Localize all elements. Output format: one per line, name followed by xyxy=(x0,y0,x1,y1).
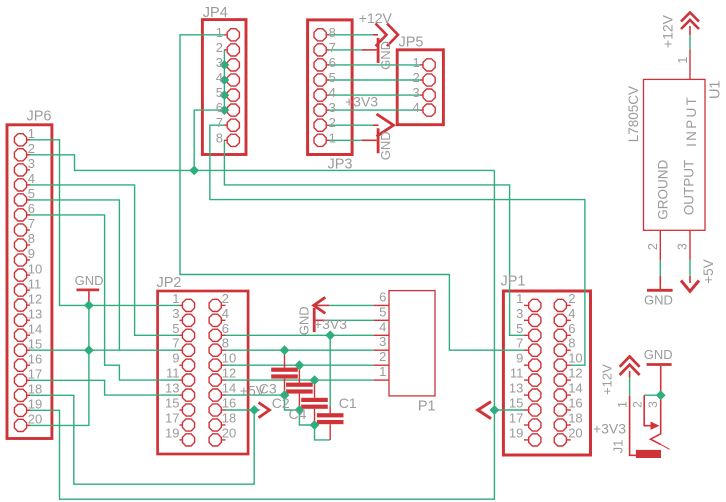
svg-text:JP1: JP1 xyxy=(501,274,526,290)
connector JP5 box xyxy=(397,50,443,125)
wire JP3 pin7 to GND symbol xyxy=(328,49,362,51)
junction +5V at JP2 pin16 xyxy=(249,405,259,415)
wire J1 pin1 to +12V symbol xyxy=(629,376,631,396)
svg-text:7: 7 xyxy=(216,115,223,130)
svg-text:16: 16 xyxy=(28,351,42,366)
connector JP1 box xyxy=(503,291,590,455)
GND symbol at JP3 pin1 xyxy=(362,128,378,153)
connector JP6 box xyxy=(7,125,52,439)
junction J1 pins 2-3 GND xyxy=(656,390,666,400)
svg-text:5: 5 xyxy=(516,321,523,336)
svg-text:20: 20 xyxy=(568,425,582,440)
wire JP3 pin2 to +3V3 symbol xyxy=(328,124,374,126)
svg-text:1: 1 xyxy=(412,55,419,70)
svg-text:4: 4 xyxy=(329,85,336,100)
JP3 pads and pin stubs xyxy=(314,29,329,147)
wire GND: vertical tie by JP6 xyxy=(27,305,89,425)
svg-text:C1: C1 xyxy=(339,395,357,411)
svg-text:19: 19 xyxy=(509,425,523,440)
jumper J1 body bar xyxy=(636,450,661,458)
svg-text:1: 1 xyxy=(172,291,179,306)
svg-text:1: 1 xyxy=(516,291,523,306)
wire JP6 pin4 to JP2 pin5 xyxy=(27,185,179,335)
GND symbol above JP2 pin1 wire xyxy=(77,290,100,306)
connector JP2 box xyxy=(158,291,249,454)
svg-text:14: 14 xyxy=(28,321,42,336)
svg-text:12: 12 xyxy=(222,366,236,381)
svg-text:5: 5 xyxy=(28,186,35,201)
svg-text:8: 8 xyxy=(329,25,336,40)
junction JP4 pin6 xyxy=(220,105,230,115)
svg-text:7: 7 xyxy=(172,336,179,351)
wire JP3 pin4 to JP5 pin3 xyxy=(328,94,422,96)
svg-text:JP3: JP3 xyxy=(328,157,353,173)
wire JP6 pin18 to JP2 pin16 bus xyxy=(27,395,254,484)
svg-text:20: 20 xyxy=(222,425,236,440)
svg-text:2: 2 xyxy=(28,141,35,156)
junction +5V at JP1 pin15 xyxy=(490,405,500,415)
junction C3 bottom xyxy=(280,390,290,400)
svg-text:8: 8 xyxy=(28,231,35,246)
svg-text:3: 3 xyxy=(516,306,523,321)
svg-text:+12V: +12V xyxy=(600,364,615,395)
svg-text:+12V: +12V xyxy=(359,10,393,26)
JP1 left pads and pin stubs xyxy=(524,299,541,446)
svg-text:6: 6 xyxy=(216,100,223,115)
svg-text:9: 9 xyxy=(28,246,35,261)
junction GND at JP2 pin7 row xyxy=(84,345,94,355)
svg-text:16: 16 xyxy=(568,396,582,411)
wire JP2 pin6 to P1 pin4 xyxy=(225,334,374,336)
wire P1 pin6 to +3V3 symbol xyxy=(329,304,374,306)
capacitor C2 xyxy=(301,380,328,425)
junction C4 bottom xyxy=(295,405,305,415)
wire JP4 pin8 to JP1 pin5 xyxy=(224,140,524,335)
+5V supply symbol at JP2 pin16 xyxy=(254,403,269,418)
jumper J1 pin1 line xyxy=(630,396,636,456)
JP5 pads and pin stubs xyxy=(420,59,435,116)
svg-text:4: 4 xyxy=(412,100,419,115)
wire JP3 pin8 to +12V symbol xyxy=(328,34,374,36)
wire JP4 pin1 to JP1 pin7 xyxy=(180,35,524,350)
svg-text:8: 8 xyxy=(222,336,229,351)
svg-text:2: 2 xyxy=(646,243,660,250)
svg-text:18: 18 xyxy=(568,411,582,426)
wire capacitor ground chain C3-C4-C2-C1 xyxy=(285,395,331,440)
wire JP4 pin7 to JP1 pin10 xyxy=(210,125,585,365)
svg-text:17: 17 xyxy=(165,411,179,426)
svg-text:GND: GND xyxy=(75,273,104,288)
U1 pin 3 xyxy=(689,230,691,260)
svg-text:15: 15 xyxy=(165,396,179,411)
junction C3 top xyxy=(280,345,290,355)
svg-text:+12V: +12V xyxy=(660,14,676,48)
+12V supply symbol at JP3 pin8 xyxy=(373,24,398,47)
svg-text:GND: GND xyxy=(644,347,673,362)
GND symbol above J1 xyxy=(647,365,672,396)
svg-text:10: 10 xyxy=(568,351,582,366)
svg-text:13: 13 xyxy=(509,381,523,396)
svg-text:11: 11 xyxy=(166,366,180,381)
svg-text:GND: GND xyxy=(297,306,312,335)
GND symbol at JP3 pin7 xyxy=(362,38,378,63)
svg-text:3: 3 xyxy=(379,334,386,349)
jumper J1 pin3 line with contact zigzag xyxy=(651,395,670,449)
junction JP4 pin3 xyxy=(220,60,230,70)
svg-text:JP2: JP2 xyxy=(157,275,182,291)
svg-text:3: 3 xyxy=(675,243,689,250)
svg-text:P1: P1 xyxy=(418,399,436,415)
svg-text:8: 8 xyxy=(568,336,575,351)
svg-text:17: 17 xyxy=(28,367,42,382)
svg-text:9: 9 xyxy=(172,351,179,366)
svg-text:U1: U1 xyxy=(707,81,723,100)
svg-text:2: 2 xyxy=(568,291,575,306)
svg-text:14: 14 xyxy=(568,381,582,396)
wire net +5V: JP6 pin2 staircase to long horizontal xyxy=(27,155,494,171)
svg-text:J1: J1 xyxy=(611,440,626,454)
svg-text:2: 2 xyxy=(222,291,229,306)
P1 pin stubs xyxy=(374,305,389,380)
svg-text:13: 13 xyxy=(165,381,179,396)
wire P1 pin5 to GND symbol xyxy=(329,319,374,321)
svg-text:+5V: +5V xyxy=(701,259,716,283)
svg-text:+3V3: +3V3 xyxy=(593,420,626,436)
svg-text:OUTPUT: OUTPUT xyxy=(682,160,697,216)
svg-text:3: 3 xyxy=(28,156,35,171)
svg-text:6: 6 xyxy=(28,201,35,216)
svg-text:2: 2 xyxy=(216,40,223,55)
wire JP6 pin1 down to GND row xyxy=(27,140,179,306)
connector JP3 box xyxy=(308,20,353,155)
svg-text:GND: GND xyxy=(378,131,393,160)
wire net +5V: junction up to JP4 pin6 and JP4 pins2-6 tie xyxy=(194,50,224,170)
svg-text:GND: GND xyxy=(378,41,393,70)
svg-text:5: 5 xyxy=(379,304,386,319)
wire net +5V: JP6 pin19 down to bottom bus and right riser xyxy=(27,170,494,499)
wire U1 pin2 net xyxy=(659,261,661,276)
GND symbol at P1 pin5 xyxy=(314,308,328,332)
jumper J1 pin2 line with wiper arrow xyxy=(644,395,659,430)
svg-text:18: 18 xyxy=(28,382,42,397)
wire JP2 pin10 to P1 pin2 xyxy=(225,364,374,366)
JP5 pin numbers xyxy=(412,55,419,115)
wire U1 pin3 net xyxy=(689,260,691,276)
svg-text:3: 3 xyxy=(412,85,419,100)
svg-text:15: 15 xyxy=(28,336,42,351)
connector JP4 box xyxy=(202,20,246,155)
svg-text:7: 7 xyxy=(329,40,336,55)
svg-text:10: 10 xyxy=(222,351,236,366)
U1 pin 2 xyxy=(659,230,661,260)
svg-text:1: 1 xyxy=(28,126,35,141)
+3V3 supply symbol at P1 pin6 xyxy=(314,297,329,313)
svg-text:C4: C4 xyxy=(289,406,307,422)
JP1 pin numbers xyxy=(509,291,583,441)
JP2 left pads and pin stubs xyxy=(179,299,194,446)
svg-text:8: 8 xyxy=(216,130,223,145)
svg-text:4: 4 xyxy=(568,306,575,321)
svg-text:6: 6 xyxy=(329,55,336,70)
svg-text:3: 3 xyxy=(646,401,660,408)
svg-text:11: 11 xyxy=(510,366,524,381)
svg-text:JP4: JP4 xyxy=(203,5,228,21)
svg-text:5: 5 xyxy=(172,321,179,336)
svg-text:20: 20 xyxy=(28,412,42,427)
wire JP6 pin17 to JP2 pin13 xyxy=(27,380,179,395)
junction C2 top xyxy=(310,375,320,385)
svg-text:10: 10 xyxy=(28,261,42,276)
svg-text:GND: GND xyxy=(644,292,673,307)
svg-text:1: 1 xyxy=(676,57,690,64)
JP4 pin numbers xyxy=(216,25,223,146)
svg-text:INPUT: INPUT xyxy=(684,95,699,147)
wire JP2 pin14 to capacitor C3 bottom xyxy=(225,394,285,396)
svg-text:2: 2 xyxy=(412,70,419,85)
+5V supply symbol below U1 pin3 xyxy=(681,276,699,292)
svg-text:1: 1 xyxy=(379,364,386,379)
+12V supply symbol above U1 xyxy=(681,13,699,36)
wire JP3 pin5 to JP5 pin2 xyxy=(328,79,422,81)
JP4 pads and pin stubs xyxy=(224,29,239,147)
wire JP3 pin3 to JP5 pin4 xyxy=(328,109,422,111)
svg-text:4: 4 xyxy=(379,319,386,334)
svg-text:3: 3 xyxy=(172,306,179,321)
wire JP6 pin5 down to GND row tie xyxy=(27,200,119,350)
wire JP2 pin8 to P1 pin3 xyxy=(225,349,374,351)
+3V3 supply symbol at JP3 pin2 xyxy=(373,114,394,136)
svg-text:6: 6 xyxy=(222,321,229,336)
svg-text:5: 5 xyxy=(329,70,336,85)
capacitor C1 xyxy=(317,407,344,440)
svg-text:19: 19 xyxy=(28,397,42,412)
regulator U1 box xyxy=(644,79,706,230)
svg-text:2: 2 xyxy=(379,349,386,364)
junction JP4 pin5 xyxy=(220,90,230,100)
svg-text:9: 9 xyxy=(516,351,523,366)
svg-text:19: 19 xyxy=(165,425,179,440)
svg-text:12: 12 xyxy=(568,366,582,381)
JP6 pin numbers xyxy=(28,126,42,427)
svg-text:15: 15 xyxy=(509,396,523,411)
junction JP4 pin4 xyxy=(220,75,230,85)
svg-text:6: 6 xyxy=(379,289,386,304)
svg-text:4: 4 xyxy=(216,70,223,85)
capacitor C3 xyxy=(271,350,298,395)
wire J1 junction to pin2 xyxy=(644,394,661,396)
svg-text:JP5: JP5 xyxy=(399,35,424,51)
wire JP6 pin6 staircase to JP2 pin11 xyxy=(27,215,179,380)
svg-text:17: 17 xyxy=(509,411,523,426)
JP6 pads and pin stubs xyxy=(14,134,30,432)
P1 pin numbers xyxy=(379,289,386,379)
svg-text:7: 7 xyxy=(28,216,35,231)
svg-text:16: 16 xyxy=(222,396,236,411)
svg-text:5: 5 xyxy=(216,85,223,100)
connector P1 box xyxy=(389,291,435,396)
+12V supply symbol at J1 pin1 xyxy=(620,357,640,378)
svg-text:+3V3: +3V3 xyxy=(314,316,347,332)
GND symbol below U1 pin2 xyxy=(647,276,673,291)
+5V supply symbol at JP1 pin15 xyxy=(478,402,495,419)
JP2 pin numbers xyxy=(165,291,236,441)
svg-text:14: 14 xyxy=(222,381,236,396)
svg-text:C2: C2 xyxy=(272,395,290,411)
svg-text:18: 18 xyxy=(222,411,236,426)
svg-text:2: 2 xyxy=(329,115,336,130)
wire U1 pin1 net xyxy=(689,35,691,49)
svg-text:6: 6 xyxy=(568,321,575,336)
svg-text:7: 7 xyxy=(516,336,523,351)
capacitor C4 xyxy=(286,365,313,410)
svg-text:L7805CV: L7805CV xyxy=(626,86,641,142)
junction C4 top xyxy=(295,360,305,370)
svg-text:12: 12 xyxy=(28,291,42,306)
wire JP3 pin1 to GND symbol xyxy=(328,139,362,141)
wire GND: JP6 pin15 to JP2 pin7 xyxy=(27,349,179,351)
svg-text:4: 4 xyxy=(222,306,229,321)
JP1 right pads and pin stubs xyxy=(554,299,571,446)
wire JP2 pin12 to P1 pin1 xyxy=(225,379,374,381)
svg-text:3: 3 xyxy=(216,55,223,70)
svg-text:JP6: JP6 xyxy=(27,109,52,125)
svg-text:1: 1 xyxy=(616,401,630,408)
U1 pin 1 xyxy=(689,49,691,79)
JP2 right pads and pin stubs xyxy=(209,299,225,446)
junction C1 top xyxy=(325,330,335,340)
svg-text:3: 3 xyxy=(329,100,336,115)
svg-text:2: 2 xyxy=(631,401,645,408)
svg-text:1: 1 xyxy=(216,25,223,40)
svg-text:GROUND: GROUND xyxy=(656,160,671,220)
junction GND at JP2 pin1 row xyxy=(84,301,94,311)
svg-text:11: 11 xyxy=(28,276,42,291)
svg-text:4: 4 xyxy=(28,171,35,186)
svg-text:+3V3: +3V3 xyxy=(345,93,378,109)
svg-text:1: 1 xyxy=(329,130,336,145)
JP3 pin numbers xyxy=(329,25,336,146)
junction C2 bottom xyxy=(310,420,320,430)
wire net +5V: riser junction to JP1 pin15 xyxy=(494,409,524,411)
svg-text:13: 13 xyxy=(28,306,42,321)
wire junction to capacitor C1 top xyxy=(329,335,331,406)
junction JP6 pin2 / JP4 pin6 / +5V xyxy=(189,166,199,176)
wire JP3 pin6 to JP5 pin1 xyxy=(328,64,422,66)
